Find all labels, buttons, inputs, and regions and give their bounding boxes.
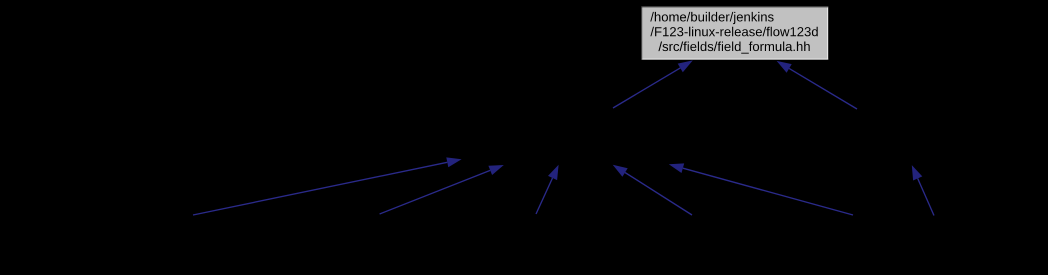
label text L3: /src/fields/field_formula.hh (658, 42, 809, 54)
bottom row includer node B5 (invisible) (783, 216, 923, 268)
edge arrow E1 bottom node B1 -> node2 (193, 157, 462, 215)
box light bevel right edge (827, 7, 829, 60)
bottom row includer node B2 (invisible) (310, 216, 450, 268)
bottom row includer node B1 (invisible) (123, 216, 263, 268)
edge arrow E6 bottom node B6 -> node3 (912, 165, 934, 215)
node2 middle includer (invisible black box) (462, 108, 690, 165)
bottom row includer node B6 (invisible) (864, 216, 1004, 268)
edge arrow E3 bottom node B3 -> node2 (536, 165, 559, 214)
box dark bevel left edge (641, 6, 643, 59)
edge arrow E2 bottom node B2 -> node2 (380, 165, 504, 214)
label text L2: /F123-linux-release/flow123d (650, 27, 817, 37)
node3 right includer (invisible black box) (845, 108, 955, 165)
edge arrow E7 node2 -> field_formula.hh (613, 60, 693, 108)
edge arrow E5 bottom node B5 -> node2 (669, 163, 853, 215)
bottom row includer node B4 (invisible) (622, 216, 762, 268)
box light bevel bottom edge (642, 58, 828, 60)
edge arrow E4 bottom node B4 -> node2 (613, 165, 692, 215)
edge arrow E8 node3 -> field_formula.hh (777, 61, 857, 109)
node field_formula.hh (current file, grey box) (123, 6, 1004, 267)
label text L1: /home/builder/jenkins (650, 12, 773, 24)
box dark bevel top edge (641, 6, 828, 8)
bottom row includer node B3 (invisible) (466, 216, 606, 268)
